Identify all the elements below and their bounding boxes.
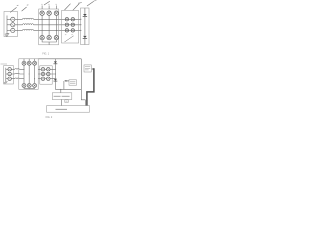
node bus right a <box>80 19 81 20</box>
stub above column 3 <box>55 6 57 10</box>
converter box U1 <box>39 9 59 45</box>
node bus right b <box>80 24 81 25</box>
node bus A <box>60 89 61 90</box>
node X2 <box>55 74 56 75</box>
sensor box text <box>70 82 75 84</box>
arrow into gate unit <box>91 68 93 70</box>
wire pair row 2 <box>38 73 55 75</box>
AC source G5 <box>8 72 11 75</box>
breaker S1b <box>71 18 74 21</box>
svg-text:FIG. 2: FIG. 2 <box>46 116 53 119</box>
node X1 <box>55 69 56 70</box>
label 1 <box>17 4 19 6</box>
node C6 <box>34 78 35 79</box>
AC source G4 <box>8 68 11 71</box>
node B2 <box>49 24 50 25</box>
pointer leader 2 (to source box bus) <box>22 7 27 11</box>
stub above column 2 <box>48 6 50 10</box>
inductor LA <box>23 18 34 19</box>
source box PS2 <box>4 66 14 84</box>
tick label b <box>71 34 72 36</box>
wire right drop <box>81 59 85 106</box>
label 5 <box>78 2 82 5</box>
thick control wire <box>87 69 94 106</box>
main control box text <box>56 108 68 110</box>
inductor LB <box>23 24 34 25</box>
label 2 <box>27 4 29 6</box>
wire phase C2 <box>11 78 23 80</box>
wire pair row 3 <box>38 78 55 80</box>
wire sensor link <box>66 80 69 82</box>
breaker S2a <box>65 23 68 26</box>
arrow into sensor line <box>64 80 66 82</box>
AC source G3 <box>11 28 15 32</box>
tick label a <box>65 34 66 36</box>
wire branch c <box>7 29 10 31</box>
ground (source box 2) <box>4 81 8 83</box>
node B5 <box>29 74 30 75</box>
breaker S4b <box>47 68 50 71</box>
bus wire (source box 2) <box>5 68 7 81</box>
breaker S6b <box>47 77 50 80</box>
thyristor V11 <box>27 84 31 88</box>
bus wire (source box) <box>6 16 8 33</box>
wire phase C <box>15 29 81 31</box>
thyristor V6 <box>54 35 58 39</box>
source box PS1 <box>4 12 18 37</box>
AC source G1 <box>11 17 15 21</box>
wire branch b2 <box>6 73 8 75</box>
wire column 3b <box>34 59 36 84</box>
gate unit box B1 <box>84 65 91 72</box>
pointer leader 1 (to source box) <box>10 7 16 12</box>
inductor LB2 <box>15 72 20 75</box>
AC source G2 <box>11 23 15 27</box>
gate unit text <box>85 67 90 70</box>
wire branch a2 <box>6 68 8 70</box>
wire pair row 1 <box>38 68 55 70</box>
wire bottom bus (converter 2) <box>24 88 35 90</box>
thyristor V7 <box>22 61 26 65</box>
inductor LC2 <box>15 77 20 80</box>
thyristor V3 <box>54 11 58 15</box>
breaker S1a <box>65 18 68 21</box>
node A4 <box>24 69 25 70</box>
node bus right c <box>80 30 81 31</box>
wire to controller A <box>60 89 62 92</box>
node C3 <box>56 30 57 31</box>
inductor LC <box>23 29 34 30</box>
switch-pair box U2 <box>62 11 79 44</box>
breaker S5a <box>41 72 44 75</box>
wire branch c2 <box>6 78 8 80</box>
thyristor V1 <box>40 11 44 15</box>
arrester box U3 <box>81 8 90 45</box>
thyristor V8 <box>27 61 31 65</box>
wire phase B <box>15 24 81 26</box>
arrester F3 <box>54 79 57 81</box>
wire controller A to main <box>61 99 63 105</box>
wire bottom bus 2 <box>55 88 81 90</box>
wire phase A <box>15 18 81 20</box>
sensor box B2 <box>69 80 77 85</box>
breaker S3b <box>71 29 74 32</box>
arrester F1b <box>83 36 87 38</box>
tag box mark <box>65 100 67 102</box>
pointer leader 5 <box>73 4 80 11</box>
thyristor V4 <box>40 35 44 39</box>
breaker S2b <box>71 23 74 26</box>
ground (source box) <box>5 32 9 36</box>
thyristor V2 <box>47 11 51 15</box>
pointer leader 4 (to pairs box) <box>65 4 71 10</box>
wire bottom bus (converter) <box>42 40 56 45</box>
AC source G6 <box>8 77 11 80</box>
wire column 3 <box>55 15 57 35</box>
breaker S6a <box>41 77 44 80</box>
wire phase B2 <box>11 73 23 75</box>
main control box <box>47 106 90 113</box>
wire column 1b <box>23 59 25 84</box>
label 30 dash <box>1 63 8 65</box>
thyristor V10 <box>22 84 26 88</box>
converter box U4 <box>19 59 38 90</box>
svg-text:FIG. 1: FIG. 1 <box>42 53 49 56</box>
stub label 1 <box>41 3 42 5</box>
arrester F2 <box>54 61 57 63</box>
wire column 1 <box>41 15 43 35</box>
arrester F1a <box>83 14 87 16</box>
wire branch a <box>7 18 10 20</box>
thyristor V5 <box>47 35 51 39</box>
thyristor V9 <box>33 61 37 65</box>
pointer leader 3 (to converter box) <box>44 1 50 5</box>
label 6 <box>94 0 97 2</box>
breaker S5b <box>47 72 50 75</box>
wire top link <box>38 58 81 60</box>
controller box A text <box>54 95 70 97</box>
wire column 2 <box>48 15 50 35</box>
breaker S3a <box>65 29 68 32</box>
stub above column 1 <box>41 6 43 10</box>
wire phase A2 <box>11 68 23 70</box>
wire sensor drop <box>63 81 65 89</box>
controller box A <box>52 93 72 100</box>
node A1 <box>42 19 43 20</box>
leader inside pairs box <box>65 36 74 42</box>
thyristor V12 <box>33 84 37 88</box>
stub label 2 <box>48 3 49 5</box>
switch-pair box U5 <box>40 66 52 84</box>
pointer leader 6 (to arrester box) <box>87 1 94 6</box>
wire arrester branch 2 <box>54 59 56 90</box>
wire column 2b <box>28 59 30 84</box>
inductor LA2 <box>15 68 20 71</box>
stub label 3 <box>56 3 57 5</box>
wire arrester branch <box>84 8 86 45</box>
breaker S4a <box>41 68 44 71</box>
tag box 76 <box>65 100 69 103</box>
wire branch b <box>7 24 10 26</box>
